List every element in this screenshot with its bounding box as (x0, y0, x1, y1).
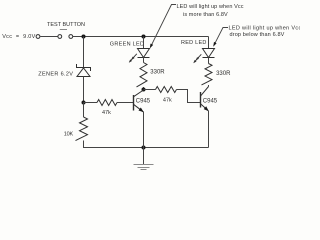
junction ground node (142, 146, 146, 150)
wire node to 47k (84, 102, 98, 104)
resistor R2 value 10K (64, 132, 74, 138)
svg-text:GREEN LED: GREEN LED (110, 42, 145, 48)
resistor R1 47k (97, 100, 117, 106)
pushbutton S1 contact right (69, 35, 73, 39)
wire 10K bottom to rail (83, 141, 85, 149)
wire green LED to 330R (143, 58, 145, 63)
transistor Q1 C945 label (136, 99, 151, 105)
wire zener bottom to node (83, 77, 85, 103)
svg-text:ZENER 6.2V: ZENER 6.2V (38, 72, 73, 78)
resistor R2 10K (76, 117, 88, 141)
green LED D2 (138, 49, 150, 58)
resistor R1 value 47k (102, 110, 111, 116)
transistor Q2 (200, 87, 208, 112)
svg-text:LED will light up when Vcc: LED will light up when Vcc (177, 4, 244, 10)
junction Q1 collector node (142, 88, 146, 92)
junction zener / 47k / 10K node (82, 101, 86, 105)
node Vcc label (2, 34, 35, 40)
red LED label (181, 40, 207, 46)
resistor R4 value 47k (163, 98, 172, 104)
wire 47k to Q1 base (117, 102, 134, 104)
ground (134, 148, 154, 170)
annotation note 2 text (229, 26, 302, 38)
zener diode D1 label (38, 72, 73, 78)
wire 330R to collector node (143, 87, 145, 90)
svg-text:47k: 47k (102, 110, 111, 116)
svg-text:330R: 330R (150, 70, 165, 76)
junction Vcc rail / green LED branch (142, 35, 146, 39)
red LED emission arrows (193, 54, 201, 63)
svg-text:C945: C945 (136, 99, 151, 105)
pushbutton S1 actuator bar (60, 29, 67, 31)
wire Q2 emitter down (208, 111, 210, 148)
svg-text:Vcc = 9.0V: Vcc = 9.0V (2, 34, 35, 40)
transistor Q1 (133, 90, 143, 112)
resistor R4 47k (156, 87, 177, 93)
terminal Vcc (36, 35, 40, 39)
annotation note 1 text (177, 4, 244, 18)
wire rail to green LED (143, 37, 145, 49)
zener diode D1 (77, 64, 91, 77)
wire top rail (73, 36, 209, 38)
wire 330R to Q2 collector (208, 85, 210, 87)
wire zener top (83, 37, 85, 68)
svg-text:C945: C945 (203, 99, 218, 105)
wire red LED to 330R (208, 58, 210, 64)
wire collector node to 47k (144, 89, 156, 91)
svg-text:RED LED: RED LED (181, 40, 207, 46)
annotation note 2 leader (213, 28, 228, 47)
svg-text:TEST BUTTON: TEST BUTTON (47, 22, 85, 28)
pushbutton S1 contact left (58, 35, 62, 39)
svg-text:330R: 330R (216, 71, 231, 77)
wire Vcc terminal to button (40, 36, 58, 38)
svg-text:drop below than 6.8V: drop below than 6.8V (230, 32, 285, 38)
svg-text:LED will light up when Vcc: LED will light up when Vcc (229, 26, 301, 32)
wire Q1 emitter down (143, 112, 145, 148)
svg-text:10K: 10K (64, 132, 74, 138)
red LED D3 (203, 49, 215, 58)
wire bottom rail (84, 147, 209, 149)
junction Vcc rail / zener branch (82, 35, 86, 39)
green LED label (110, 42, 145, 48)
svg-text:47k: 47k (163, 98, 172, 104)
resistor R5 value 330R (216, 71, 231, 77)
wire 10K top (83, 103, 85, 118)
annotation note 1 leader (150, 5, 176, 49)
pushbutton S1 TEST BUTTON label (47, 22, 85, 28)
wire 47k to Q2 base (177, 90, 201, 103)
svg-text:is more than 6.8V: is more than 6.8V (183, 12, 228, 18)
resistor R3 value 330R (150, 70, 165, 76)
resistor R3 330R (137, 63, 148, 87)
resistor R5 330R (202, 64, 213, 85)
wire rail corner to red LED (208, 37, 210, 49)
transistor Q2 C945 label (203, 99, 218, 105)
green LED emission arrows (129, 54, 137, 63)
